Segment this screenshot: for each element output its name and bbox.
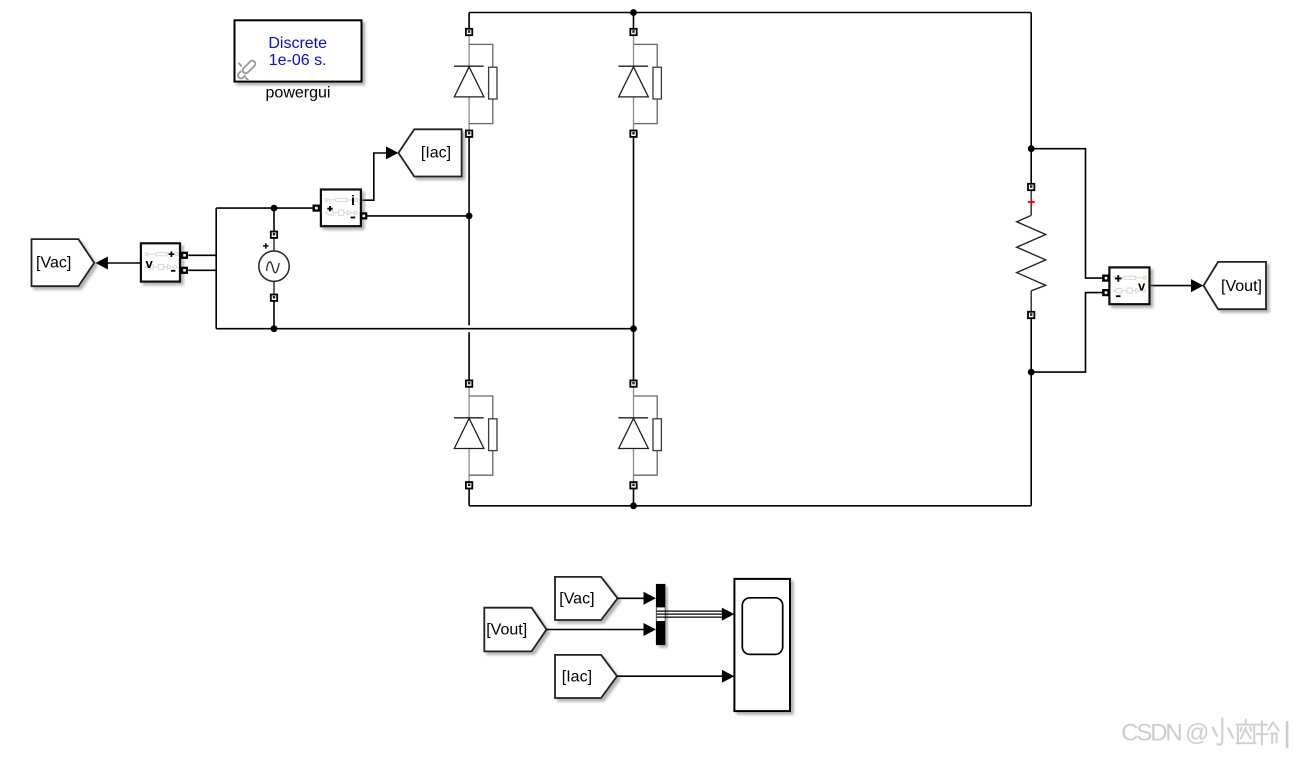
svg-text:1e-06 s.: 1e-06 s. — [269, 52, 327, 69]
wire current meas i signal to Iac tag — [361, 153, 386, 200]
svg-text:powergui: powergui — [266, 85, 331, 102]
arrowhead into Iac tag — [386, 146, 398, 159]
wire top bus down to load top — [1030, 13, 1032, 149]
wire load bottom branch to Vout meas minus — [1031, 293, 1103, 373]
watermark chinese char chi — [1236, 720, 1255, 744]
junction dot load bottom — [1028, 369, 1035, 376]
arrowhead into Vac tag — [96, 257, 108, 270]
wire load top branch to Vout meas plus — [1031, 149, 1103, 278]
from tag Vout (bottom) — [484, 608, 546, 652]
port top of load resistor — [1028, 184, 1034, 190]
wire AC source top stub — [273, 208, 275, 231]
diode D3 with snubber — [454, 380, 497, 488]
voltage measurement block U_Vout — [1109, 267, 1149, 304]
wire load bottom port to bottom node — [1030, 318, 1032, 372]
voltage measurement block U_Vac — [141, 243, 180, 281]
wire load port to zigzag — [1030, 190, 1032, 215]
wire load column top — [1030, 149, 1032, 184]
wire left vertical branch — [215, 208, 217, 329]
arrowhead into scope input 1 — [722, 608, 734, 621]
arrowhead into scope input 2 — [722, 670, 734, 683]
powergui block — [235, 20, 362, 81]
diode D4 with snubber — [618, 380, 661, 488]
junction dot AC bottom — [271, 325, 278, 332]
arrowhead into mux input 2 — [644, 623, 656, 636]
resistor load zigzag — [1017, 215, 1046, 290]
wire voltage meas minus stub — [188, 269, 216, 271]
red plus label of load — [1028, 199, 1035, 206]
svg-text:[Iac]: [Iac] — [421, 145, 451, 162]
wire mux vector signal to scope — [657, 611, 723, 617]
port bottom of AC source — [271, 295, 277, 301]
broken link icon — [237, 60, 257, 81]
junction dot current meas to left leg — [466, 213, 473, 220]
wire voltage meas plus stub — [188, 254, 216, 256]
wire current meas minus to left leg — [367, 215, 469, 217]
wire AC top node to current meas input — [216, 207, 316, 209]
diode D1 with snubber — [454, 29, 497, 137]
wire top bus to diode D1 anode — [468, 13, 470, 29]
junction dot top bus — [630, 9, 637, 16]
wire D3 to bottom bus — [468, 489, 470, 506]
wire Vout meas output to Vout tag — [1150, 285, 1192, 287]
wire AC source bottom stub — [273, 301, 275, 329]
svg-text:[Vac]: [Vac] — [36, 255, 71, 272]
wire left bridge leg D1-D3 lower — [468, 332, 470, 380]
wire from Iac tag to scope — [617, 675, 722, 677]
port input of U_Iac — [313, 205, 320, 212]
junction dot return to right leg — [630, 325, 637, 332]
svg-text:[Vout]: [Vout] — [1221, 278, 1262, 295]
watermark cursor bar — [1286, 721, 1289, 748]
wire D4 to bottom bus — [633, 489, 635, 506]
port bottom of load resistor — [1028, 312, 1034, 318]
goto tag Vac (left) — [32, 239, 95, 286]
svg-text:[Vout]: [Vout] — [486, 622, 527, 639]
svg-text:v: v — [1138, 278, 1146, 293]
wire bottom bus — [469, 505, 1031, 507]
junction dot AC top — [271, 205, 278, 212]
port minus of U_Vout — [1102, 289, 1109, 296]
port plus of U_Vout — [1102, 275, 1109, 282]
wire bottom mid return — [216, 328, 633, 330]
wire from Vout tag to mux — [547, 629, 645, 631]
arrowhead into Vout tag — [1191, 279, 1203, 292]
port minus of U_Vac — [181, 267, 188, 274]
svg-text:CSDN @: CSDN @ — [1121, 720, 1208, 747]
current measurement block U_Iac — [321, 190, 361, 227]
svg-text:[Iac]: [Iac] — [562, 669, 592, 686]
wire load bottom riser — [1030, 372, 1032, 506]
svg-text:i: i — [351, 192, 355, 208]
junction dot load top — [1028, 145, 1035, 152]
watermark chinese char lun — [1257, 721, 1279, 744]
goto tag Vout (right) — [1204, 262, 1267, 309]
port minus out of U_Iac — [360, 212, 367, 219]
AC voltage source — [259, 238, 289, 294]
wire right bridge leg D2-D4 — [633, 137, 635, 381]
from tag Vac (bottom) — [555, 577, 618, 620]
from tag Iac (bottom) — [555, 655, 617, 698]
arrowhead into mux input 1 — [644, 592, 656, 605]
svg-text:v: v — [146, 256, 154, 271]
scope block — [734, 579, 790, 711]
wire from Vac tag to mux — [618, 597, 644, 599]
wire voltage meas output to Vac tag — [106, 262, 141, 264]
mux output port marker — [657, 607, 665, 621]
port top of AC source — [271, 232, 277, 238]
wire left bridge leg D1-D3 upper — [468, 137, 470, 325]
junction dot bottom bus — [630, 502, 637, 509]
mux block — [656, 584, 666, 645]
wire top bus — [469, 12, 1031, 14]
goto tag Iac (top) — [398, 129, 461, 176]
svg-text:Discrete: Discrete — [268, 35, 327, 52]
diode D2 with snubber — [618, 29, 661, 137]
wire top bus to diode D2 anode — [633, 13, 635, 29]
port plus of U_Vac — [181, 252, 188, 259]
wire zigzag to load bottom port — [1030, 291, 1032, 312]
watermark chinese char xiao — [1213, 719, 1233, 745]
svg-text:[Vac]: [Vac] — [559, 590, 594, 607]
